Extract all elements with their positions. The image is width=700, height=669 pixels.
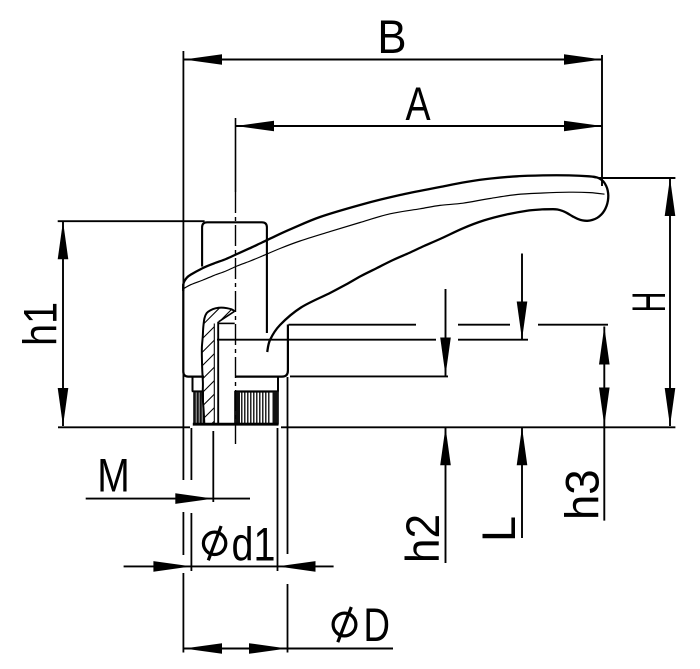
svg-text:B: B	[377, 11, 406, 64]
svg-text:h3: h3	[556, 469, 609, 520]
svg-text:M: M	[97, 450, 130, 502]
svg-text:d1: d1	[232, 519, 276, 571]
svg-text:H: H	[624, 292, 676, 313]
svg-text:h2: h2	[397, 514, 450, 563]
svg-text:D: D	[364, 599, 390, 651]
svg-text:A: A	[405, 78, 431, 131]
svg-text:h1: h1	[15, 302, 67, 346]
svg-text:L: L	[472, 516, 525, 542]
